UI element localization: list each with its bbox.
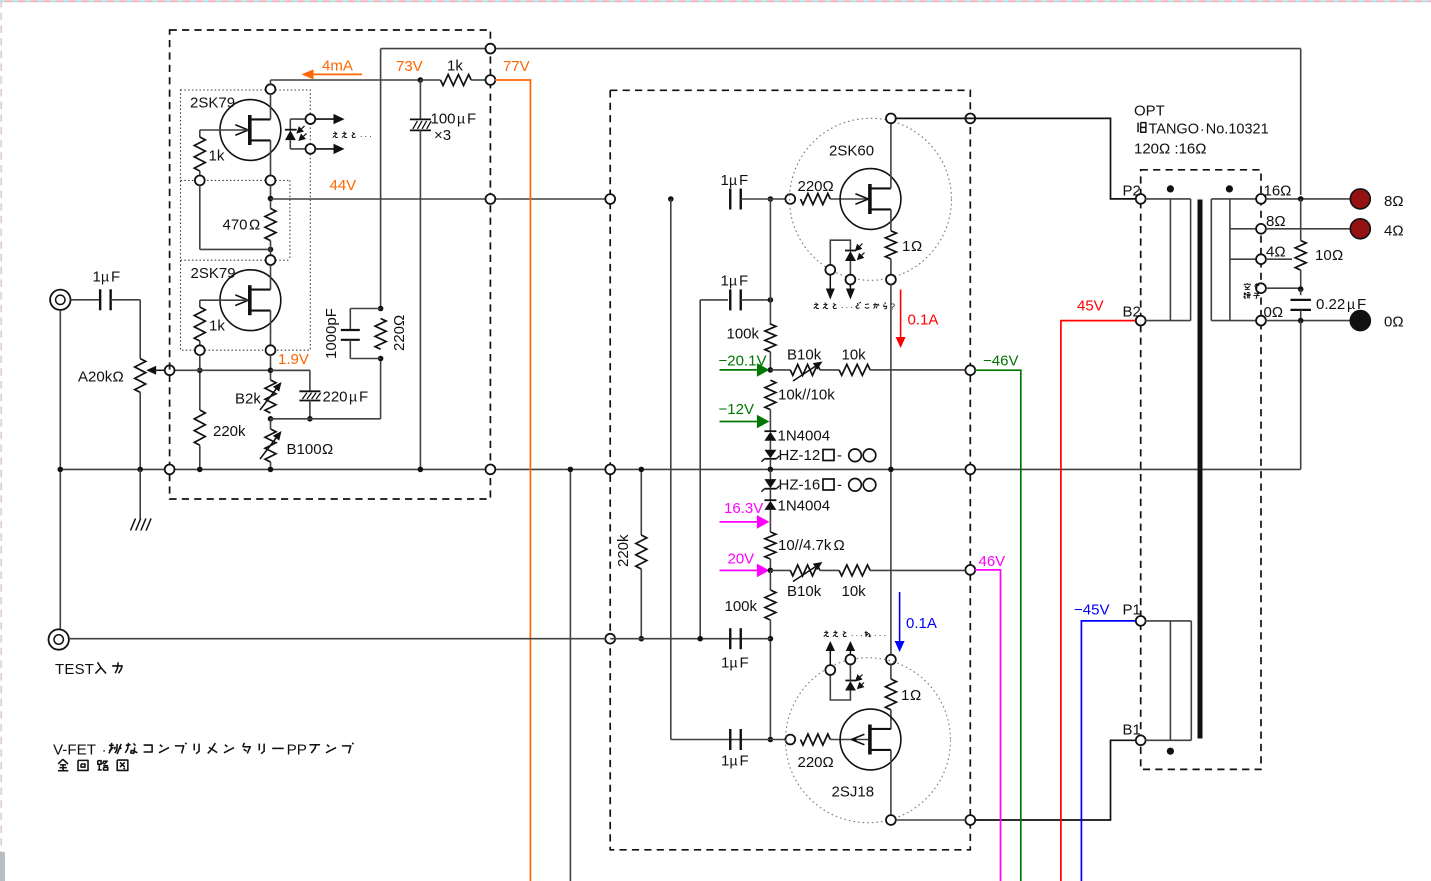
resistor 1k (Q1 gate) — [194, 130, 248, 176]
transistor Q2 2SK79 — [191, 265, 281, 331]
node: bus at box1 left edge — [165, 465, 175, 475]
svg-text:220Ω: 220Ω — [798, 178, 834, 195]
wire: input jack down to TEST jack — [59, 310, 61, 629]
ground — [131, 519, 152, 531]
arrow: mystery up B — [849, 651, 851, 655]
capacitor C1 1uF — [93, 269, 121, 311]
dotted middle box right edge — [289, 180, 291, 260]
junction: 1.9V node — [268, 368, 274, 374]
svg-text:20V: 20V — [728, 551, 755, 568]
junction: 220k bottom — [197, 467, 203, 473]
junction: 220k2 top — [639, 467, 645, 473]
svg-text:0Ω: 0Ω — [1264, 304, 1284, 321]
svg-text:µ: µ — [349, 389, 357, 405]
wire: -46V green — [975, 370, 1021, 881]
2SK60 envelope — [790, 118, 952, 280]
OPT dashed box — [1141, 170, 1261, 770]
junction: output at bus — [888, 467, 894, 473]
capacitor 0.22uF — [1290, 289, 1366, 320]
arrow: 0.1A (blue) — [899, 592, 901, 641]
resistor 10k (lower) — [820, 565, 966, 600]
LED node B (Q4) — [846, 655, 856, 665]
wire: C5 branch down to C8 — [670, 199, 672, 740]
svg-text:4Ω: 4Ω — [1266, 244, 1286, 261]
svg-text:470: 470 — [223, 217, 248, 234]
svg-text:73V: 73V — [396, 58, 423, 75]
variable resistor B10k (upper) — [770, 347, 822, 382]
svg-text:100k: 100k — [727, 326, 760, 343]
wire: 470 bottom link — [270, 241, 272, 256]
wire: tap column to bus — [1300, 321, 1302, 470]
svg-text:B1: B1 — [1123, 722, 1141, 739]
transformer core — [1198, 200, 1203, 739]
node: gate circle 2SJ18 — [785, 735, 795, 745]
wire: 4 ohm tap stub — [1266, 258, 1292, 260]
node: Q3 drain — [886, 114, 896, 124]
input jack J1 — [50, 290, 70, 310]
svg-text:P1: P1 — [1123, 602, 1141, 619]
annotation eeto ne — [825, 630, 826, 633]
transistor Q1 2SK79 — [190, 95, 281, 161]
node: output at box2 right edge — [965, 815, 975, 825]
node: Q3 source node — [886, 275, 896, 285]
svg-text:220Ω: 220Ω — [798, 754, 834, 771]
wire: Q2 drain stub — [270, 265, 272, 290]
svg-text:TEST: TEST — [55, 661, 94, 678]
node 4 ohm tap — [1256, 254, 1266, 264]
svg-text:P2: P2 — [1123, 183, 1141, 200]
junction: NFB bottom of RC — [378, 356, 384, 362]
svg-text:−12V: −12V — [719, 401, 754, 418]
wire: bus to ZD2 — [769, 469, 771, 479]
resistor 100k (upper) — [727, 324, 776, 370]
Q1 source node — [266, 176, 276, 186]
node: 44V at box2 left edge — [605, 194, 615, 204]
label 16 ohm tap — [1264, 183, 1292, 200]
variable resistor B2k — [235, 380, 282, 413]
diode D1 1N4004 — [764, 428, 830, 445]
arrow: mystery up A — [829, 651, 831, 665]
arrow: -20.1V — [720, 369, 757, 371]
svg-text:Ω: Ω — [1332, 247, 1343, 264]
wire: 0 ohm tap to terminal — [1266, 320, 1351, 322]
svg-text:B2: B2 — [1123, 304, 1141, 321]
arrow: -12V — [720, 421, 757, 423]
wire: 16 ohm to terminal — [1266, 198, 1351, 200]
wire: ZD1 to bus — [769, 459, 771, 470]
svg-text:1: 1 — [721, 172, 729, 189]
svg-text:F: F — [359, 389, 368, 406]
capacitor C8 1uF — [721, 729, 749, 770]
wire: chain -12V to D1 — [769, 422, 771, 432]
svg-text:120Ω :16Ω: 120Ω :16Ω — [1134, 141, 1206, 158]
svg-text:µ: µ — [457, 111, 465, 127]
wire: 1.9V node to C 220uF — [271, 369, 310, 371]
node: 44V at box1 right edge — [486, 194, 496, 204]
wire: output to B1 — [975, 740, 1136, 820]
svg-text:45V: 45V — [1077, 298, 1104, 315]
svg-text:B10k: B10k — [787, 583, 822, 600]
node 8 ohm tap — [1256, 224, 1266, 234]
winding secondary — [1211, 199, 1256, 321]
dotted divider upper — [181, 179, 290, 181]
dotted divider lower — [181, 259, 290, 261]
node B1 — [1136, 735, 1146, 745]
wire: ground bus — [60, 468, 1300, 470]
svg-text:220k: 220k — [213, 423, 246, 440]
svg-text:1N4004: 1N4004 — [778, 428, 831, 445]
svg-text:µ: µ — [729, 273, 737, 289]
junction: chain at TEST row — [768, 636, 774, 642]
svg-text:B10k: B10k — [787, 347, 822, 364]
Q2 1k bottom node — [195, 345, 205, 355]
wire: output column — [890, 284, 892, 655]
terminal 4 ohm — [1350, 219, 1370, 239]
svg-text:-: - — [837, 477, 842, 494]
wire: Q2 source down — [270, 311, 272, 346]
label TEST input — [55, 661, 122, 678]
node: -46V at box2 right edge — [965, 365, 975, 375]
node: gate circle 2SK60 — [785, 194, 795, 204]
svg-text:46V: 46V — [979, 553, 1006, 570]
junction: chain top — [768, 196, 774, 202]
junction: 220k top — [197, 368, 203, 374]
node 16 ohm tap — [1256, 194, 1266, 204]
wire: spare tap to column — [1266, 287, 1301, 289]
svg-text:77V: 77V — [503, 58, 530, 75]
wire: ZD2 to D2 — [769, 489, 771, 501]
junction: chain at gate2 row — [768, 737, 774, 743]
node: NFB at box1 edge — [486, 44, 496, 54]
wire: Q2 source to B2k — [270, 355, 272, 380]
wire: NFB column — [380, 49, 382, 309]
wire: drain rail to OPT P2 — [896, 118, 1137, 198]
resistor 100k (lower) — [725, 570, 776, 739]
svg-text:B100: B100 — [287, 441, 322, 458]
node P2 — [1136, 194, 1146, 204]
resistor 1k (Q2 gate) — [194, 300, 248, 345]
phase dot secondary — [1226, 185, 1233, 192]
wire: tap column upper — [1300, 199, 1302, 241]
transistor Q3 2SK60 — [829, 143, 901, 230]
wire: Q1 source down — [270, 140, 272, 175]
node: TEST at box2 left edge — [605, 634, 615, 644]
node: drain rail at box2 right edge — [965, 114, 975, 124]
svg-text:2SK60: 2SK60 — [829, 143, 874, 160]
svg-text:1: 1 — [902, 238, 910, 255]
svg-text:16Ω: 16Ω — [1264, 183, 1292, 200]
arrow: mystery down A — [829, 275, 831, 289]
resistor 1 ohm (Q3 source) — [885, 209, 922, 275]
svg-text:HZ-16: HZ-16 — [779, 477, 821, 494]
svg-text:No.10321: No.10321 — [1206, 122, 1269, 138]
svg-text:µ: µ — [101, 269, 109, 285]
label OPT model — [1137, 123, 1139, 133]
dotted box around 2SK79 pair — [181, 90, 311, 350]
svg-text:0.22: 0.22 — [1316, 296, 1345, 313]
wire: Q1 source node to 470 — [270, 185, 272, 209]
arrow: 0.1A (red) — [900, 290, 902, 338]
resistor 220 (NFB) — [375, 315, 408, 351]
2SJ18 envelope — [786, 658, 951, 823]
svg-text:44V: 44V — [330, 177, 357, 194]
junction: 470 bottom — [268, 247, 274, 253]
tap wire 4 ohm — [1230, 258, 1257, 260]
junction: bus at ground stub — [137, 467, 143, 473]
svg-text:µ: µ — [729, 172, 737, 188]
annotation eeto dokokara — [815, 302, 816, 305]
junction: B2k bottom — [268, 416, 274, 422]
ground stub — [139, 469, 141, 519]
svg-text:0.1A: 0.1A — [908, 312, 939, 329]
arrow: 4mA — [314, 73, 363, 75]
node 0 ohm tap — [1256, 316, 1266, 326]
junction: zobel mid — [1298, 286, 1304, 292]
wire: 77V orange supply — [495, 80, 530, 881]
node: bus at box2 right edge — [965, 465, 975, 475]
wire: output bottom line — [896, 819, 966, 821]
svg-text:Ω: Ω — [113, 369, 124, 386]
LED assembly (Q4) — [830, 665, 864, 700]
wire: D2 to 16.3V node — [769, 510, 771, 522]
resistor 10//4.7k — [765, 522, 845, 571]
wire: Q3 drain up — [890, 123, 892, 188]
svg-text:1000pF: 1000pF — [323, 308, 340, 359]
resistor 220 (2SJ18 gate) — [798, 734, 869, 771]
arrow: mystery down B — [849, 284, 851, 288]
svg-text:µ: µ — [1347, 296, 1355, 312]
svg-text:−46V: −46V — [983, 353, 1018, 370]
Q1 1k bottom node — [195, 176, 205, 186]
junction: chain at bus — [768, 467, 774, 473]
svg-text:2SK79: 2SK79 — [190, 95, 235, 112]
junction: 73V node — [418, 77, 424, 83]
svg-text:TANGO: TANGO — [1149, 122, 1199, 138]
node: 1 ohm lower top — [886, 655, 896, 665]
wire: wiper net — [170, 369, 310, 371]
wire: 44V drive line — [271, 198, 610, 200]
svg-text:Ω: Ω — [322, 441, 333, 458]
svg-text:1k: 1k — [447, 58, 463, 75]
LED node lower — [306, 144, 316, 154]
svg-text:µ: µ — [730, 655, 738, 671]
junction: 16 ohm at tap column — [1298, 196, 1304, 202]
svg-text:220Ω: 220Ω — [391, 315, 408, 351]
svg-text:−20.1V: −20.1V — [719, 353, 767, 370]
tap wire 8 ohm — [1230, 228, 1257, 230]
svg-text:1: 1 — [93, 269, 101, 286]
diode D2 1N4004 — [764, 498, 830, 515]
svg-text:Ω: Ω — [910, 687, 921, 704]
wire: jack to C1 — [71, 299, 101, 301]
capacitor 220uF — [299, 389, 368, 406]
zener ZD2 HZ-16 — [761, 477, 875, 494]
wire: chain column — [769, 199, 771, 325]
capacitor C7 1uF — [721, 628, 749, 671]
svg-text:10k//10k: 10k//10k — [778, 387, 835, 404]
svg-text:µ: µ — [730, 753, 738, 769]
LED assembly (Q1) — [285, 119, 311, 149]
svg-text:Ω: Ω — [249, 217, 260, 234]
node: bus at box2 left edge — [605, 465, 615, 475]
node: bus at box1 right edge — [486, 465, 496, 475]
junction: B100 bottom — [268, 467, 274, 473]
resistor 220k (box2) — [615, 469, 647, 638]
svg-text:1: 1 — [901, 687, 909, 704]
wire: VR1 to ground bus — [139, 392, 141, 469]
wire: NFB top line — [381, 48, 1301, 50]
label OPT ratio — [1134, 141, 1206, 158]
wire: 220uF bottom — [309, 401, 311, 419]
terminal 8 ohm — [1350, 189, 1370, 209]
wire: 8 ohm tap to terminal — [1266, 228, 1351, 230]
title line 2 — [58, 759, 63, 764]
svg-text:V-FET: V-FET — [53, 742, 96, 759]
junction: 20V node — [768, 568, 774, 574]
svg-text:-: - — [837, 447, 842, 464]
terminal 0 ohm — [1350, 311, 1370, 331]
resistor 10 ohm — [1295, 241, 1343, 290]
svg-text:8Ω: 8Ω — [1384, 193, 1404, 210]
node B2 — [1136, 316, 1146, 326]
svg-text:1k: 1k — [209, 318, 225, 335]
junction: 100uF bottom at bus — [418, 467, 424, 473]
node P1 — [1136, 616, 1146, 626]
svg-text:16.3V: 16.3V — [724, 500, 763, 517]
arrow: LED out lower — [316, 148, 334, 150]
junction: 220k2 bottom — [639, 636, 645, 642]
wire: 46V magenta — [975, 570, 1001, 881]
svg-text:4Ω: 4Ω — [1384, 223, 1404, 240]
zener ZD1 HZ-12 — [761, 447, 875, 464]
wire: C1 to VR1 — [111, 299, 141, 301]
capacitor 100uF x3 — [410, 80, 476, 469]
junction: 220uF bottom — [307, 416, 313, 422]
wire: D1 to ZD1 — [769, 441, 771, 450]
svg-text:B2k: B2k — [235, 391, 261, 408]
node: wiper at box edge — [165, 365, 175, 375]
LED assembly (Q3) — [830, 240, 864, 275]
svg-text:F: F — [467, 111, 476, 128]
svg-text:10: 10 — [1315, 247, 1332, 264]
output stage dashed box — [610, 90, 970, 850]
label spare tap — [1244, 283, 1260, 298]
svg-text:HZ-12: HZ-12 — [779, 447, 821, 464]
wire: Q2 1k node to wiper net — [199, 355, 201, 371]
svg-text:F: F — [740, 753, 749, 770]
wire: TEST jack to box2 — [69, 638, 606, 640]
svg-text:220: 220 — [323, 389, 348, 406]
VR1 wiper arrow — [156, 369, 169, 371]
resistor 220k input — [194, 370, 246, 469]
phase dot primary lower — [1167, 748, 1174, 755]
resistor 1 ohm (Q4 source) — [885, 664, 921, 729]
node spare tap — [1256, 283, 1266, 293]
capacitor 1000pF — [323, 308, 381, 359]
node: 77V at box edge — [486, 75, 496, 85]
svg-text:1: 1 — [721, 655, 729, 672]
junction: bus drop — [568, 467, 574, 473]
svg-text:F: F — [739, 273, 748, 290]
svg-text:0.1A: 0.1A — [906, 615, 937, 632]
svg-text:F: F — [739, 172, 748, 189]
wire: B2k bottom row — [271, 418, 381, 420]
resistor 220 (2SK60 gate) — [798, 178, 869, 205]
arrow: LED out upper — [316, 118, 334, 120]
resistor 10k (upper) — [820, 347, 966, 376]
svg-text:1N4004: 1N4004 — [778, 498, 831, 515]
svg-text:220k: 220k — [615, 534, 632, 567]
junction: NFB top of RC — [378, 306, 384, 312]
potentiometer VR1 A20k — [78, 359, 146, 393]
resistor 470 — [223, 209, 277, 241]
LED node B (Q3) — [846, 275, 856, 285]
junction: C6 leg at TEST — [697, 636, 703, 642]
wire: C6 left leg — [699, 300, 701, 639]
svg-text:1: 1 — [721, 273, 729, 290]
junction: C6 at chain — [768, 297, 774, 303]
junction: 0 ohm at tap column — [1298, 318, 1304, 324]
svg-text:PP: PP — [287, 742, 307, 759]
LED node A (Q3) — [825, 265, 835, 275]
winding primary upper — [1145, 199, 1190, 321]
junction: -20.1V node — [768, 367, 774, 373]
capacitor C6 1uF — [700, 273, 770, 311]
annotation eeto (box1) — [334, 131, 335, 134]
junction: bus at input column — [58, 467, 64, 473]
junction: C5 branch — [668, 196, 674, 202]
svg-text:1.9V: 1.9V — [278, 351, 309, 368]
wire: bus drop line — [569, 469, 571, 881]
wire: -45V blue — [1081, 621, 1136, 881]
arrow: 20V — [720, 569, 757, 571]
svg-text:OPT: OPT — [1134, 103, 1165, 120]
winding primary lower — [1145, 621, 1191, 740]
svg-text:A20k: A20k — [78, 369, 113, 386]
phase dot primary upper — [1167, 185, 1174, 192]
Q2 source node — [266, 345, 276, 355]
node: 46V at box2 right edge — [965, 565, 975, 575]
svg-text:100k: 100k — [725, 598, 758, 615]
svg-text:4mA: 4mA — [322, 58, 353, 75]
Q2 drain node — [266, 255, 276, 265]
svg-text:F: F — [111, 269, 120, 286]
svg-text:10k: 10k — [842, 347, 867, 364]
variable resistor B10k (lower) — [770, 562, 822, 600]
TEST input jack J2 — [49, 629, 69, 649]
svg-text:F: F — [740, 655, 749, 672]
svg-text:2SK79: 2SK79 — [191, 265, 236, 282]
svg-text:10//4.7k: 10//4.7k — [778, 537, 832, 554]
Q1 drain node — [266, 84, 276, 94]
wire: 45V red — [1061, 321, 1136, 881]
svg-text:×3: ×3 — [434, 127, 451, 144]
wire: Q1 drain to supply row — [270, 94, 272, 120]
first stage dashed box — [170, 30, 491, 499]
svg-text:1k: 1k — [209, 148, 225, 165]
resistor 1k (supply) — [420, 58, 485, 86]
capacitor C5 1uF — [721, 172, 749, 210]
junction: 44V node — [268, 196, 274, 202]
wire: 2SK60 gate segment — [741, 198, 791, 200]
svg-text:−45V: −45V — [1074, 602, 1109, 619]
arrow: 16.3V — [720, 521, 757, 523]
svg-text:100: 100 — [431, 111, 456, 128]
svg-text:Ω: Ω — [911, 238, 922, 255]
svg-text:0Ω: 0Ω — [1384, 314, 1404, 331]
svg-text:1: 1 — [721, 753, 729, 770]
transistor Q4 2SJ18 — [832, 709, 901, 800]
